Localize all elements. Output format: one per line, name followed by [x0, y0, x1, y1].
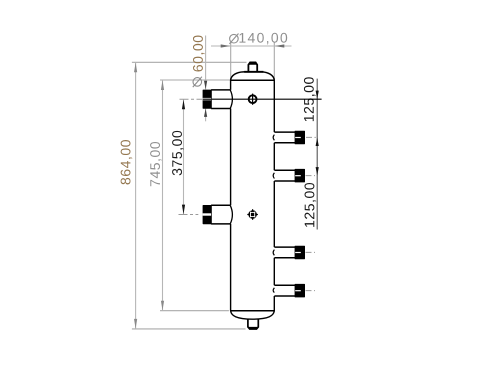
centerline node1 black horizontal [203, 98, 322, 100]
fitting R4 pipe [274, 285, 295, 296]
arrow dia140 right [275, 44, 285, 47]
fitting R2 thread [295, 170, 304, 182]
fitting L2 intersection arc [230, 205, 232, 224]
arrow 864 bottom [134, 319, 137, 329]
dimension line 375 [183, 99, 185, 214]
label 60,00 [193, 35, 205, 71]
fitting R4 intersection arc [273, 288, 274, 293]
tank top seam [230, 79, 275, 81]
fitting R4 thread [295, 285, 304, 297]
arrow 125 lower-top (points down to fitting2 CL) [316, 167, 319, 175]
centerline dash right fitting R1 [306, 136, 316, 138]
centerline dash right fitting R4 [306, 290, 316, 292]
label 864,00 [121, 140, 133, 184]
centerline dash right fitting R2 [306, 175, 316, 177]
tank bottom seam [230, 310, 275, 312]
arrow dia60 lower [204, 109, 207, 117]
arrow 375 bottom [182, 205, 185, 215]
fitting R3 thread relief [295, 252, 301, 253]
fitting L2 thread [203, 206, 211, 224]
fitting R3 thread [295, 246, 304, 258]
fitting L2 thread relief [203, 213, 212, 215]
dome apex weld line [244, 71, 263, 73]
fitting L1 thread [203, 90, 211, 108]
tank left wall segments [230, 80, 232, 310]
dimension line dia140 [211, 45, 292, 47]
fitting R4 thread relief [295, 290, 301, 291]
dimension line 864 [135, 62, 137, 329]
bottom nipple [248, 319, 258, 329]
arrow 125 upper-bottom (points up to fitting1 CL) [316, 138, 319, 146]
fitting R2 pipe [274, 170, 295, 181]
fitting R3 intersection arc [273, 250, 274, 256]
extension line 745 top [160, 79, 230, 81]
node symbol 1 [249, 94, 257, 105]
fitting L2 pipe [211, 205, 230, 224]
label 745,00 [150, 142, 162, 186]
top nipple [248, 62, 257, 72]
arrow 864 top [134, 63, 137, 73]
arrow dia140 left [221, 44, 231, 47]
centerline dash-dot left of fitting L2 [179, 214, 199, 216]
fitting L1 intersection arc [230, 90, 232, 109]
dimension line diameter 60 lower segment [205, 108, 207, 121]
arrow 745 top [161, 80, 164, 90]
label 125,00 upper [304, 77, 316, 121]
centerline dash right fitting R3 [306, 251, 316, 253]
fitting L1 pipe [211, 90, 230, 109]
dimension line 745 [162, 80, 164, 311]
dimension line diameter 60 upper segment [205, 36, 207, 90]
tank bottom dome [231, 311, 275, 320]
label 375,00 [172, 131, 184, 176]
label 125,00 lower [305, 183, 317, 227]
fitting R1 thread [295, 131, 304, 143]
fitting R1 thread relief [295, 137, 301, 138]
fitting R2 intersection arc [273, 173, 274, 179]
arrow dia60 upper [204, 81, 207, 89]
fitting L1 thread relief [203, 98, 212, 100]
tank top dome [231, 72, 275, 80]
extension line 745 bottom [160, 310, 229, 312]
extension line 864 top [132, 61, 247, 63]
label 140,00 [240, 33, 288, 45]
extension line dia140 right [273, 43, 275, 80]
fitting R1 intersection arc [273, 135, 274, 141]
tank right wall segments [273, 80, 275, 310]
label dia symbol 140 [229, 34, 238, 44]
fitting L1 thread relief centerline [203, 98, 211, 100]
dimension line 125 shared vertical [316, 79, 318, 230]
centerline dash-dot left of fitting L1 [180, 98, 203, 100]
fitting R2 thread relief [295, 175, 301, 176]
top nipple cap bar [248, 62, 258, 65]
bottom nipple cap bar [248, 327, 258, 330]
arrow 745 bottom [161, 301, 164, 311]
arrow 375 top [182, 100, 185, 110]
label dia symbol 60 [193, 77, 202, 87]
fitting R1 pipe [274, 132, 295, 143]
extension line dia140 left [230, 43, 232, 80]
arrow 125 upper-top (points down to node CL1) [316, 91, 319, 99]
node symbol 2 [247, 209, 258, 220]
extension line 864 bottom [132, 328, 246, 330]
fitting R3 pipe [274, 247, 295, 258]
